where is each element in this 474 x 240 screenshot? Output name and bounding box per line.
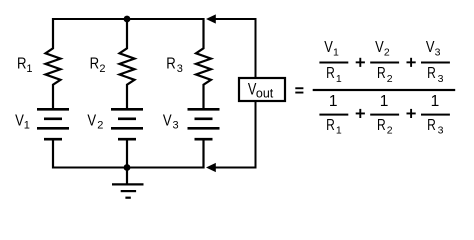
svg-text:2: 2 [387,125,393,137]
svg-text:V: V [324,39,333,56]
battery V1 [37,109,69,168]
svg-text:R: R [166,56,176,73]
svg-text:R: R [17,56,27,73]
svg-text:1: 1 [24,120,30,132]
svg-text:3: 3 [172,120,178,132]
wire feedback top with arrow [206,14,256,78]
equation denominator 1/R3 [421,93,450,137]
svg-text:R: R [326,117,335,134]
node top junction dot [124,16,131,23]
svg-text:R: R [377,65,386,82]
svg-text:R: R [427,117,436,134]
label V3 [163,113,179,132]
label R3 [166,56,183,75]
label V2 [87,113,103,132]
equation main fraction bar [313,89,456,91]
equation numerator V2/R2 [370,39,399,85]
resistor R2 [120,18,135,108]
svg-text:3: 3 [435,47,441,59]
svg-text:2: 2 [97,120,103,132]
svg-text:R: R [326,65,335,82]
label R1 [17,56,32,75]
wire bottom bus [52,167,205,169]
battery V3 [188,109,220,168]
svg-text:3: 3 [438,125,444,137]
svg-text:R: R [377,117,386,134]
svg-text:V: V [163,113,172,130]
equation numerator V1/R1 [319,39,348,85]
svg-text:2: 2 [384,47,390,59]
equation plus denominator 1 [356,109,365,118]
equation plus numerator 2 [407,58,416,67]
svg-text:R: R [90,56,100,73]
equation denominator 1/R1 [319,93,348,137]
svg-text:2: 2 [99,63,105,75]
svg-text:1: 1 [333,47,339,59]
node bottom junction dot [124,164,131,171]
Vout box [239,78,285,101]
resistor R1 [46,18,61,108]
svg-text:1: 1 [26,63,32,75]
svg-text:V: V [426,39,435,56]
svg-text:1: 1 [431,93,440,110]
svg-text:3: 3 [438,73,444,85]
resistor R3 [196,18,211,108]
svg-text:1: 1 [380,93,389,110]
svg-text:1: 1 [336,73,342,85]
equation plus numerator 1 [356,58,365,67]
svg-text:1: 1 [329,93,338,110]
wire feedback bottom with arrow [206,101,256,173]
label R2 [90,56,106,75]
svg-text:V: V [375,39,384,56]
equation plus denominator 2 [407,109,416,118]
svg-text:V: V [87,113,96,130]
label V1 [15,113,30,132]
ground [112,168,144,198]
svg-text:3: 3 [177,63,183,75]
battery V2 [111,109,143,168]
equation denominator 1/R2 [370,93,399,137]
svg-text:2: 2 [387,73,393,85]
equation numerator V3/R3 [421,39,450,85]
svg-text:out: out [256,87,274,101]
wire top bus [52,18,205,20]
svg-text:1: 1 [336,125,342,137]
svg-text:R: R [427,65,436,82]
equation equals sign [295,87,303,93]
